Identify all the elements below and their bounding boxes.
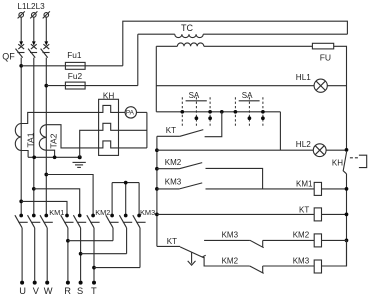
- fuse Fu1: [65, 62, 85, 69]
- node L2 feed tap: [32, 187, 36, 191]
- wire heater3 output: [119, 147, 147, 149]
- svg-text:KM3: KM3: [165, 178, 182, 187]
- selector switch SA group2 contact dots: [234, 110, 265, 120]
- svg-text:KT: KT: [167, 237, 177, 246]
- svg-text:U: U: [19, 286, 26, 296]
- node rail B / KT coil rung: [155, 213, 159, 217]
- wire L1 to KM2 pole1: [21, 201, 67, 215]
- wire CT secondary common: [28, 156, 80, 158]
- svg-text:PA: PA: [126, 110, 135, 117]
- wire L2 drop to QF with arrowhead: [32, 17, 36, 45]
- thermal contact KH break: [343, 152, 367, 174]
- svg-text:KH: KH: [332, 159, 343, 168]
- circuit breaker QF pole at x=21.2: [16, 44, 25, 57]
- node S crossover: [79, 252, 83, 256]
- svg-text:HL2: HL2: [296, 140, 311, 149]
- node right rail / HL2: [345, 148, 349, 152]
- terminal S: [77, 281, 83, 296]
- node junction L3/Fu2: [44, 84, 48, 88]
- node L1 feed tap: [19, 200, 23, 204]
- relay contact KM2 aux: [157, 163, 263, 189]
- wire HL1 to right rail: [327, 85, 346, 87]
- wire SA rung: [156, 111, 280, 113]
- selector switch SA group1 handle bar: [186, 100, 207, 102]
- selector switch SA group1 contact dots: [180, 110, 212, 120]
- node rail B / KM2 aux: [155, 167, 159, 171]
- wire crossover T to KM3 pole3: [94, 267, 140, 269]
- thermal overload KH box: [99, 99, 119, 155]
- terminal T: [91, 281, 97, 296]
- svg-text:QF: QF: [2, 51, 15, 61]
- node common/ground riser: [78, 155, 82, 159]
- wire SA rung riser to HL2 rung: [279, 112, 281, 150]
- svg-text:KH: KH: [103, 91, 114, 100]
- node L3 feed tap: [44, 173, 48, 177]
- svg-text:KM1: KM1: [296, 179, 313, 188]
- wire KM3 pole3 riser: [138, 183, 140, 216]
- terminal L2: [30, 11, 37, 18]
- wire crossover S to KM3 pole2: [81, 253, 127, 255]
- wire phase L3 vertical: [45, 58, 47, 216]
- wire TA2 secondary to KH heater3: [46, 125, 98, 148]
- node junction L1/Fu1: [19, 64, 23, 68]
- coil KT: [314, 208, 321, 221]
- heater element KH at y=130.3: [99, 123, 119, 130]
- svg-text:KM3: KM3: [140, 208, 155, 217]
- node T crossover: [92, 266, 96, 270]
- svg-text:SA: SA: [242, 91, 253, 100]
- current transformer TA2 winding: [39, 125, 46, 151]
- wire FU to right rail: [334, 46, 347, 150]
- fuse FU: [312, 43, 333, 49]
- wire TA1 secondary to KH heater1: [21, 112, 98, 123]
- wire KT coil to rail: [322, 213, 347, 215]
- svg-text:Fu1: Fu1: [67, 50, 82, 60]
- wire right rail lower: [346, 174, 348, 266]
- selector switch SA group2 handle bar: [239, 100, 260, 102]
- wire crossover R to KM3 pole1: [68, 240, 113, 242]
- wire rail B upper corner: [156, 136, 158, 246]
- contactor main contact KM1 pole1: [15, 214, 28, 281]
- wire L2 to KM2 pole2: [34, 189, 80, 216]
- svg-text:KM2: KM2: [165, 158, 182, 167]
- svg-text:S: S: [77, 286, 83, 296]
- svg-text:FU: FU: [320, 52, 331, 62]
- terminal V: [33, 281, 40, 296]
- svg-text:V: V: [33, 286, 40, 296]
- wire Fu1 feed: [21, 65, 123, 67]
- svg-text:W: W: [44, 286, 53, 296]
- contactor main contact KM3 pole3: [133, 214, 146, 268]
- svg-text:KT: KT: [166, 126, 176, 135]
- heater element KH at y=147.9: [99, 141, 119, 148]
- wire Fu2 riser to TC primary: [137, 34, 139, 85]
- wire L3 drop to QF with arrowhead: [44, 17, 48, 45]
- relay contact KM2 interlock: [250, 266, 315, 273]
- wire heater1 output to PA: [119, 111, 126, 113]
- wire KM3 pole2 riser: [125, 183, 127, 216]
- svg-text:Fu2: Fu2: [68, 71, 83, 81]
- relay contact KM3 aux: [157, 183, 314, 189]
- wire HL2 rung: [157, 149, 313, 151]
- relay contact KT delayed with arrow: [157, 246, 250, 266]
- terminal R: [64, 281, 71, 296]
- node right rail / KM2 coil: [345, 239, 349, 243]
- contactor main contact KM2 pole1: [61, 214, 74, 281]
- fuse Fu2: [65, 82, 85, 89]
- node R crossover: [66, 239, 70, 243]
- coil KM2: [314, 234, 321, 247]
- current transformer TA1 winding: [15, 124, 21, 151]
- svg-text:KM3: KM3: [222, 230, 239, 239]
- wire KM3 star bridge: [112, 182, 139, 184]
- coil KM3: [314, 260, 321, 273]
- wire L1 drop to QF with arrowhead: [19, 17, 23, 45]
- svg-text:KM3: KM3: [293, 257, 310, 266]
- wire KT coil rung: [157, 213, 314, 215]
- svg-text:L1L2L3: L1L2L3: [17, 2, 45, 11]
- transformer TC primary winding: [138, 33, 175, 35]
- contactor main contact KM2 pole2: [73, 214, 86, 281]
- node star bridge center: [124, 181, 128, 185]
- wire KM3 pole1 riser: [111, 183, 113, 216]
- wire PA to bar: [137, 111, 147, 113]
- wire KM3 coil to rail: [322, 240, 347, 266]
- wire heater2 feed riser: [80, 130, 99, 157]
- wire KM1 coil to rail: [322, 188, 347, 190]
- circuit breaker QF pole at x=33.8: [28, 44, 37, 57]
- ammeter PA: [125, 107, 136, 118]
- svg-text:HL1: HL1: [296, 73, 311, 82]
- node right rail / KM1 coil: [345, 187, 349, 191]
- wire heater2 output: [119, 129, 147, 131]
- svg-text:TA1: TA1: [26, 132, 36, 147]
- ground: [73, 162, 86, 167]
- svg-text:T: T: [91, 286, 97, 296]
- wire phase L2 vertical: [33, 58, 35, 216]
- svg-text:KM1: KM1: [49, 208, 64, 217]
- wire HL1 rung: [156, 85, 314, 87]
- circuit breaker QF pole at x=46.3: [41, 44, 50, 57]
- node right rail / KT coil: [345, 213, 349, 217]
- terminal L3: [43, 11, 50, 18]
- contactor main contact KM3 pole2: [119, 214, 132, 254]
- svg-text:KM2: KM2: [95, 208, 110, 217]
- heater element KH at y=112.4: [99, 105, 119, 112]
- coil KM1: [314, 182, 321, 195]
- contactor main contact KM3 pole1: [106, 214, 119, 241]
- relay contact KM3 interlock: [204, 240, 314, 248]
- node rail B / HL2 rung: [155, 148, 159, 152]
- selector switch SA group1 linkage lines: [182, 97, 210, 126]
- wire KH output bar: [146, 112, 148, 147]
- svg-text:SA: SA: [189, 91, 200, 100]
- wire control left rail (TC secondary): [155, 46, 157, 112]
- terminal W: [44, 281, 53, 296]
- wire Fu1 riser to top bus: [123, 21, 348, 66]
- wire HL2 to right rail: [326, 149, 346, 151]
- node SA rung / KT bypass riser: [220, 110, 224, 114]
- lamp HL1: [314, 79, 327, 92]
- contactor main contact KM1 pole3: [40, 214, 53, 281]
- svg-text:TA2: TA2: [49, 133, 59, 148]
- wire L3 to KM2 pole3: [46, 175, 93, 216]
- svg-text:KM2: KM2: [293, 230, 310, 239]
- transformer TC secondary winding: [156, 45, 177, 47]
- wire TA2 secondary to common: [46, 150, 54, 157]
- wire KM2 coil to rail: [322, 239, 347, 241]
- svg-text:TC: TC: [181, 23, 193, 33]
- svg-text:KM2: KM2: [222, 257, 239, 266]
- terminal U: [19, 281, 26, 296]
- node common/L2: [32, 155, 36, 159]
- contactor main contact KM1 pole2: [28, 214, 41, 281]
- terminal L1: [18, 11, 25, 18]
- wire phase L1 vertical: [20, 58, 22, 216]
- contactor main contact KM2 pole3: [87, 214, 100, 281]
- svg-text:R: R: [64, 286, 71, 296]
- svg-text:KT: KT: [299, 205, 309, 214]
- wire Fu2 feed: [46, 85, 138, 87]
- relay contact KT bypass: [157, 112, 222, 137]
- node rail B / KM3 aux: [155, 187, 159, 191]
- lamp HL2: [313, 144, 326, 157]
- node common/TA2: [53, 155, 57, 159]
- selector switch SA group2 linkage lines: [235, 97, 263, 126]
- wire TA1 secondary to common: [21, 151, 28, 158]
